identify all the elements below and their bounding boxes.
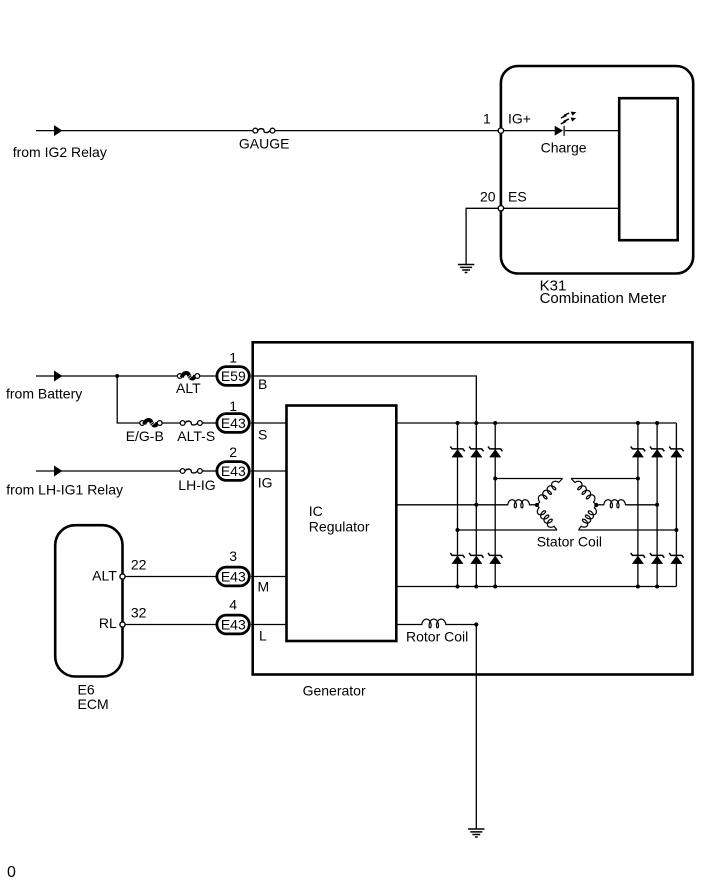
svg-text:E43: E43 [221, 463, 246, 479]
svg-text:E43: E43 [221, 569, 246, 585]
svg-text:ECM: ECM [78, 696, 109, 712]
wire: GAUGE fuse to combination meter pin 1 [275, 130, 498, 132]
svg-text:L: L [259, 627, 267, 643]
junction: bottom bus [655, 585, 659, 589]
connector E43 pin 4 (L) [217, 615, 249, 634]
fuse GAUGE [253, 128, 258, 133]
diode D10 lower (avalanche) [631, 553, 645, 558]
LED charge lamp: anode triangle [555, 126, 563, 136]
connector E59 pin 1 (B) [217, 367, 249, 386]
stator coil inductor: diagonal top-left [537, 479, 563, 506]
diode D8 lower (avalanche) [469, 553, 483, 558]
svg-text:from IG2 Relay: from IG2 Relay [13, 144, 107, 160]
arrow: from LH-IG1 Relay feed [54, 466, 62, 477]
LED charge lamp: cathode bar [563, 126, 565, 136]
svg-text:22: 22 [131, 557, 147, 573]
wire: stator lower phase line right segment [579, 529, 677, 531]
junction: stator left vertex [535, 503, 539, 507]
LED flash arrow upper [561, 113, 569, 118]
wire: M from connector to IC regulator [251, 576, 287, 578]
diode D2 upper (avalanche) [469, 447, 483, 452]
diode D6 upper (avalanche) [669, 447, 683, 452]
junction: middle line on branch 5 [655, 503, 659, 507]
svg-text:IG: IG [258, 475, 273, 491]
svg-text:E59: E59 [221, 368, 246, 384]
rotor coil inductor [421, 619, 447, 628]
svg-text:Charge: Charge [541, 140, 587, 156]
junction: bottom bus [456, 585, 460, 589]
junction: rotor line / ground branch [474, 622, 478, 626]
junction: top bus [636, 421, 640, 425]
arrow: from IG2 Relay feed [54, 125, 62, 136]
svg-text:Regulator: Regulator [309, 519, 370, 535]
svg-text:20: 20 [480, 189, 496, 205]
wire: ALT fusible link to connector E59 [200, 375, 217, 377]
fuse LH-IG [180, 469, 185, 474]
stator coil inductor: right middle [603, 500, 626, 508]
ground: generator [468, 829, 484, 837]
wire: rotor line from IC regulator [396, 624, 421, 626]
terminal circle: meter pin 1 IG+ [498, 128, 503, 133]
junction: top bus [655, 421, 659, 425]
junction: top bus [493, 421, 497, 425]
stator coil inductor: diagonal bottom-right [579, 505, 597, 530]
junction: lower stator line on branch 6 [674, 528, 678, 532]
junction: top bus [474, 421, 478, 425]
wire: left inductor to left vertex [530, 504, 537, 506]
svg-text:ALT: ALT [92, 567, 117, 583]
wire: bottom bus from IC regulator across diode bridge [396, 586, 676, 588]
wire: diode branch vertical 2 [475, 423, 477, 587]
wire: stator upper phase line left segment [495, 478, 562, 480]
junction: upper stator line on branch 4 [636, 477, 640, 481]
svg-text:RL: RL [99, 615, 117, 631]
svg-text:E/G-B: E/G-B [126, 428, 164, 444]
wire: ECM RL pin to connector E43 (L) [125, 624, 217, 626]
wire: rotor coil to ground branch [446, 624, 476, 626]
svg-text:LH-IG: LH-IG [178, 477, 215, 493]
svg-text:S: S [258, 426, 267, 442]
generator box [253, 342, 693, 674]
svg-text:GAUGE: GAUGE [239, 135, 290, 151]
diode D1 upper (avalanche) [450, 447, 464, 452]
junction: stator right vertex [594, 503, 598, 507]
svg-text:E43: E43 [221, 617, 246, 633]
diode D12 lower (avalanche) [669, 553, 683, 558]
wire: diode branch vertical 6 [675, 423, 677, 587]
fuse ALT-S [180, 421, 185, 426]
svg-text:Stator Coil: Stator Coil [537, 534, 602, 550]
junction: upper stator line on branch 3 [493, 477, 497, 481]
IC regulator box U1 [287, 406, 397, 642]
ground: combination meter ES [458, 265, 474, 273]
junction: middle line on branch 2 [474, 503, 478, 507]
diode D3 upper (avalanche) [488, 447, 502, 452]
junction: bottom bus [636, 585, 640, 589]
wire: diode branch vertical 4 [637, 423, 639, 587]
wire: B+ top bus from IC regulator across diode bridge [396, 422, 676, 424]
fusible link ALT [177, 374, 182, 379]
wire: diode branch vertical 5 [656, 423, 658, 587]
wire: E/G-B to ALT-S fuse [162, 422, 180, 424]
svg-text:IG+: IG+ [508, 110, 531, 126]
ECM E6 box [55, 525, 122, 676]
svg-text:from LH-IG1 Relay: from LH-IG1 Relay [6, 482, 123, 498]
junction: top bus [456, 421, 460, 425]
diode D4 upper (avalanche) [631, 447, 645, 452]
wire: diode branch vertical 1 [457, 423, 459, 587]
stator coil inductor: diagonal bottom-left [537, 505, 557, 530]
wire: ECM ALT pin to connector E43 (M) [125, 576, 217, 578]
LED flash arrow lower [561, 119, 569, 124]
svg-text:32: 32 [131, 605, 147, 621]
wire: battery branch down to E/G-B fuse row [117, 376, 140, 423]
fusible link E/G-B [140, 421, 145, 426]
svg-text:1: 1 [483, 110, 491, 126]
svg-text:E6: E6 [78, 682, 95, 698]
wire: IG from connector to IC regulator [251, 470, 287, 472]
svg-text:3: 3 [229, 548, 237, 564]
wire: B from connector across to diode bridge drop [251, 376, 476, 423]
svg-text:IC: IC [309, 503, 323, 519]
wire: charge LED to meter internal block [565, 130, 619, 132]
wire: generator ground drop [475, 625, 477, 830]
wire: diode branch vertical 3 [494, 423, 496, 587]
wire: from IG2 Relay to GAUGE fuse [36, 130, 253, 132]
svg-text:E43: E43 [221, 415, 246, 431]
wire: middle phase line from IC regulator [396, 504, 507, 506]
terminal circle: meter pin 20 ES [498, 206, 503, 211]
wire: ALT-S fuse to connector E43 (S) [202, 422, 217, 424]
terminal circle: ECM pin 32 RL [120, 622, 125, 627]
diode D9 lower (avalanche) [488, 553, 502, 558]
wire: IG+ terminal to charge LED [503, 130, 555, 132]
stator coil inductor: left middle [507, 500, 530, 508]
svg-text:ES: ES [508, 188, 527, 204]
terminal circle: ECM pin 22 ALT [120, 574, 125, 579]
diode D7 lower (avalanche) [450, 553, 464, 558]
wire: stator lower phase line left segment [458, 529, 558, 531]
wire: LH-IG fuse to connector E43 (IG) [202, 470, 217, 472]
stator coil inductor: diagonal top-right [571, 479, 596, 506]
wire: ES terminal to meter internal block [503, 207, 619, 209]
svg-text:Generator: Generator [303, 682, 366, 698]
svg-text:ALT-S: ALT-S [177, 428, 215, 444]
svg-text:2: 2 [229, 444, 237, 460]
connector E43 pin 3 (M) [217, 567, 249, 586]
connector E43 pin 1 (S) [217, 414, 249, 433]
svg-text:Combination Meter: Combination Meter [540, 290, 667, 307]
wire: from LH-IG1 Relay to LH-IG fuse [36, 470, 180, 472]
wire: L from connector to IC regulator [251, 624, 287, 626]
svg-text:M: M [258, 579, 270, 595]
svg-text:1: 1 [229, 398, 237, 414]
diode D11 lower (avalanche) [650, 553, 664, 558]
svg-text:0: 0 [7, 864, 16, 881]
wire: ES terminal to ground [466, 208, 498, 264]
arrow: from Battery feed [54, 371, 62, 382]
junction dot: battery branch [115, 374, 119, 378]
connector E43 pin 2 (IG) [217, 462, 249, 481]
wire: right vertex to right inductor [596, 504, 603, 506]
wire: right inductor to diode branch 5 [626, 504, 657, 506]
svg-text:4: 4 [229, 597, 237, 613]
svg-text:ALT: ALT [176, 380, 201, 396]
combination meter K31 box [501, 66, 693, 274]
diode D5 upper (avalanche) [650, 447, 664, 452]
wire: from Battery to ALT fusible link [36, 375, 177, 377]
junction: bottom bus [493, 585, 497, 589]
meter internal block rectangle [619, 98, 678, 240]
wire: S from connector to IC regulator [251, 422, 287, 424]
junction: bottom bus [474, 585, 478, 589]
wire: stator upper phase line right segment [571, 478, 638, 480]
svg-text:Rotor Coil: Rotor Coil [406, 629, 468, 645]
svg-text:1: 1 [229, 350, 237, 366]
svg-text:from Battery: from Battery [6, 385, 82, 401]
junction: lower stator line on branch 1 [456, 528, 460, 532]
svg-text:B: B [258, 376, 267, 392]
